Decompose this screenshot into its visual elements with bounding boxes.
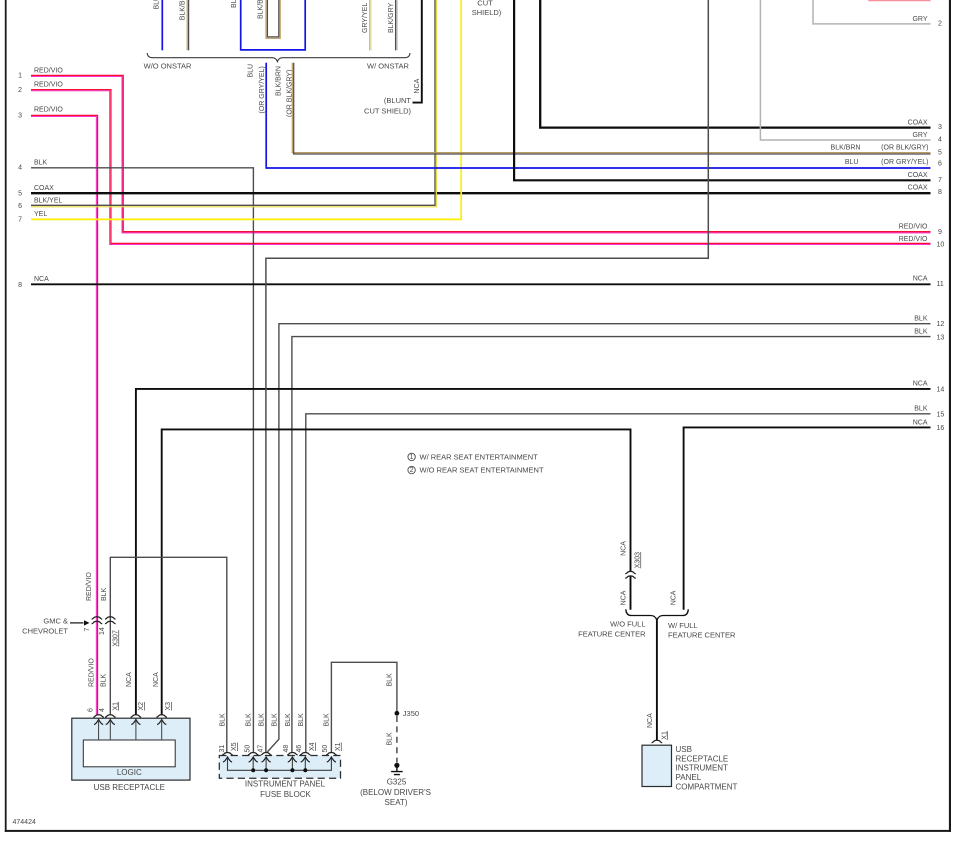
wire left pin6 BLK/YEL black part, up at x435: [31, 0, 435, 205]
svg-text:14: 14: [99, 627, 106, 635]
svg-text:GRY/YEL: GRY/YEL: [362, 3, 369, 33]
svg-text:15: 15: [937, 411, 945, 418]
svg-text:2: 2: [938, 20, 942, 27]
svg-text:BLK/GRY: BLK/GRY: [388, 2, 395, 33]
wire left pin2 RED/VIO violet stripe: [31, 91, 931, 245]
svg-text:X303: X303: [634, 552, 641, 568]
usb pin 4 dome and arrow: [105, 715, 116, 740]
svg-text:COAX: COAX: [908, 119, 928, 126]
wire right pin13 BLK down at x292 to fuse pin 48: [292, 337, 931, 753]
svg-text:FUSE BLOCK: FUSE BLOCK: [260, 790, 311, 799]
svg-text:8: 8: [18, 282, 22, 289]
svg-text:INSTRUMENT PANEL: INSTRUMENT PANEL: [245, 780, 326, 789]
svg-text:31: 31: [219, 745, 226, 753]
svg-text:SEAT): SEAT): [385, 798, 408, 807]
bus junction dot 4: [303, 768, 307, 772]
svg-text:NCA: NCA: [913, 275, 928, 282]
svg-text:RED/VIO: RED/VIO: [34, 67, 63, 74]
svg-text:NCA: NCA: [671, 590, 678, 605]
wire w/ onstar BLK/BRN U-loop black part: [267, 0, 278, 37]
svg-text:7: 7: [84, 628, 91, 632]
svg-text:BLU: BLU: [845, 159, 859, 166]
svg-text:CHEVROLET: CHEVROLET: [22, 627, 68, 636]
svg-text:BLK: BLK: [245, 713, 252, 727]
svg-text:LOGIC: LOGIC: [117, 768, 142, 777]
svg-text:RED/VIO: RED/VIO: [34, 107, 63, 114]
svg-text:CUT: CUT: [477, 0, 493, 8]
wire left pin7 YEL up at x461: [31, 0, 461, 219]
wire left pin2 RED/VIO red to right pin 10: [31, 90, 931, 244]
svg-text:BLK/BRN: BLK/BRN: [276, 66, 283, 96]
svg-text:47: 47: [257, 745, 264, 753]
svg-text:11: 11: [937, 281, 944, 288]
wire right pin12 BLK down at x279 to fuse pin 47: [267, 324, 930, 752]
wire BLK fuse pin 50/X1 to J350: [331, 662, 397, 752]
wire right pin15 BLK down at x306 to fuse pin 46: [306, 414, 931, 753]
footnote 1 circle: [408, 453, 415, 461]
bus junction dot 2: [264, 768, 268, 772]
svg-text:PANEL: PANEL: [676, 773, 702, 782]
wire left pin3 RED/VIO red down to USB receptacle pin 6: [31, 115, 98, 715]
svg-text:RED/VIO: RED/VIO: [86, 572, 93, 601]
wire BLK dashed J350 to G325: [396, 716, 398, 763]
svg-text:W/ REAR SEAT ENTERTAINMENT: W/ REAR SEAT ENTERTAINMENT: [420, 453, 539, 462]
usb receptacle instrument panel compartment box: [642, 745, 672, 786]
svg-text:NCA: NCA: [647, 713, 654, 728]
wire BLK vertical x708 from top to fuse pin 47: [266, 0, 708, 753]
svg-text:5: 5: [938, 150, 942, 157]
svg-text:NCA: NCA: [621, 590, 628, 605]
svg-text:48: 48: [283, 745, 290, 753]
svg-text:NCA: NCA: [621, 541, 628, 556]
svg-text:GRY: GRY: [912, 132, 927, 139]
svg-text:BLU: BLU: [231, 0, 238, 8]
svg-text:9: 9: [938, 229, 942, 236]
connector X303: [625, 571, 636, 578]
svg-text:5: 5: [18, 190, 22, 197]
svg-text:BLK/YEL: BLK/YEL: [34, 198, 63, 205]
wire BLK/GRY stub black part: [395, 0, 397, 50]
svg-text:X307: X307: [112, 630, 119, 646]
svg-text:BLK: BLK: [387, 732, 394, 746]
wire right pin2 GRY up at x813: [813, 0, 931, 24]
svg-text:J350: J350: [403, 709, 419, 718]
wire left pin5 COAX to right pin 8: [31, 192, 931, 194]
wire w/o onstar BLK/BRN stub tan part: [186, 0, 188, 50]
wire left pin6 BLK/YEL yellow stripe: [31, 0, 436, 207]
svg-text:474424: 474424: [13, 819, 36, 826]
wire w/o onstar BLU stub: [161, 0, 163, 50]
svg-text:4: 4: [938, 136, 942, 143]
svg-text:10: 10: [937, 242, 945, 249]
svg-text:SHIELD): SHIELD): [472, 8, 502, 17]
svg-text:50: 50: [244, 745, 251, 753]
footnote 2 circle: [408, 466, 415, 474]
wire BLK/BRN from brace to right pin 5 black part: [294, 63, 931, 154]
svg-text:BLU: BLU: [247, 64, 254, 78]
svg-text:BLU: BLU: [154, 0, 161, 10]
svg-text:BLK/BRN: BLK/BRN: [258, 0, 265, 19]
svg-text:BLK: BLK: [220, 713, 227, 727]
fuse pin 50/X1 dome and arrow: [326, 753, 337, 763]
svg-text:W/O FULL: W/O FULL: [610, 620, 645, 629]
svg-text:BLK: BLK: [101, 587, 108, 601]
svg-text:X1: X1: [335, 742, 342, 751]
brace onstar options: [147, 53, 410, 62]
usb pin X2 dome and arrow: [131, 715, 142, 740]
svg-text:(OR GRY/YEL): (OR GRY/YEL): [881, 159, 928, 166]
svg-text:X5: X5: [231, 742, 238, 751]
svg-text:(OR GRY/YEL): (OR GRY/YEL): [259, 66, 266, 113]
svg-text:COAX: COAX: [34, 185, 54, 192]
svg-text:BLK: BLK: [914, 316, 928, 323]
arrow GMC pointer: [70, 620, 90, 625]
svg-text:8: 8: [938, 189, 942, 196]
svg-text:CUT SHIELD): CUT SHIELD): [364, 106, 411, 115]
svg-text:YEL: YEL: [34, 211, 47, 218]
svg-text:X1: X1: [112, 702, 119, 711]
svg-text:X3: X3: [165, 702, 172, 711]
svg-text:COMPARTMENT: COMPARTMENT: [676, 783, 738, 792]
border left: [5, 0, 7, 832]
svg-text:3: 3: [938, 124, 942, 131]
fuse pin 46 dome and arrow: [300, 753, 311, 763]
svg-text:W/ ONSTAR: W/ ONSTAR: [367, 61, 410, 70]
wire w/ onstar BLK/BRN U-loop tan part: [266, 0, 280, 38]
svg-text:COAX: COAX: [908, 185, 928, 192]
wire GRY/YEL stub yellow part: [370, 0, 372, 50]
svg-text:12: 12: [937, 321, 945, 328]
wire w/o onstar BLK/BRN stub black part: [188, 0, 190, 50]
svg-text:BLK: BLK: [101, 673, 108, 687]
junction J350: [395, 711, 400, 716]
bus junction dot 3: [290, 768, 294, 772]
wire BLK bridge USB pin4 to fuse pin 31: [110, 557, 227, 752]
svg-text:14: 14: [937, 386, 945, 393]
fuse block dashed box: [219, 756, 340, 779]
svg-text:W/ FULL: W/ FULL: [668, 621, 698, 630]
svg-text:X4: X4: [309, 742, 316, 751]
svg-text:W/O ONSTAR: W/O ONSTAR: [144, 61, 192, 70]
ground G325: [391, 763, 403, 775]
svg-text:BLK: BLK: [387, 673, 394, 687]
svg-text:NCA: NCA: [414, 78, 421, 93]
wire left pin1 RED/VIO violet stripe: [31, 77, 931, 233]
svg-text:NCA: NCA: [913, 381, 928, 388]
fuse pin 47 dome and arrow: [261, 753, 272, 763]
usb receptacle logic box: [83, 740, 175, 767]
wire left pin4 BLK down to fuse block pin 50: [31, 168, 253, 753]
svg-text:6: 6: [18, 203, 22, 210]
svg-text:BLK: BLK: [285, 713, 292, 727]
fuse pin 50 dome and arrow: [248, 753, 259, 763]
svg-text:X1: X1: [661, 731, 668, 740]
svg-text:BLK: BLK: [914, 329, 928, 336]
svg-text:NCA: NCA: [34, 276, 49, 283]
svg-text:NCA: NCA: [913, 419, 928, 426]
svg-text:BLK/BRN: BLK/BRN: [831, 145, 861, 152]
wire NCA w/o full feature center: from USB pin X3 up across to x630 down to brace: [162, 429, 631, 715]
bus junction dot 1: [251, 768, 255, 772]
svg-text:BLK: BLK: [298, 713, 305, 727]
svg-text:RED/VIO: RED/VIO: [34, 81, 63, 88]
svg-text:GMC &: GMC &: [43, 616, 68, 625]
wire left pin8 NCA to right pin 11: [31, 283, 931, 285]
svg-text:7: 7: [938, 177, 942, 184]
svg-text:6: 6: [938, 161, 942, 168]
svg-text:BLK: BLK: [914, 406, 928, 413]
svg-text:7: 7: [18, 216, 22, 223]
wire NCA blunt cut shield: [413, 0, 422, 103]
wire right pin1 RED/VIO stub red: [868, 0, 930, 2]
svg-text:INSTRUMENT: INSTRUMENT: [676, 764, 729, 773]
svg-text:USB: USB: [676, 745, 692, 754]
svg-text:COAX: COAX: [908, 172, 928, 179]
connector X307 on BLK wire: [105, 617, 116, 624]
wire NCA merged output down to bottom USB receptacle: [656, 620, 658, 740]
usb receptacle box: [72, 718, 190, 780]
svg-text:FEATURE CENTER: FEATURE CENTER: [578, 629, 646, 638]
wire left pin3 RED/VIO violet stripe: [31, 117, 96, 715]
svg-text:GRY: GRY: [912, 16, 927, 23]
svg-text:FEATURE CENTER: FEATURE CENTER: [668, 631, 736, 640]
connector X307 on RED/VIO wire: [92, 617, 103, 624]
svg-text:RECEPTACLE: RECEPTACLE: [676, 754, 729, 763]
svg-text:BLK: BLK: [34, 160, 48, 167]
svg-text:W/O REAR SEAT ENTERTAINMENT: W/O REAR SEAT ENTERTAINMENT: [420, 466, 544, 475]
svg-text:(BLUNT: (BLUNT: [384, 96, 412, 105]
svg-text:6: 6: [87, 708, 94, 712]
usb pin 6 dome and arrow: [93, 715, 104, 740]
svg-text:NCA: NCA: [153, 672, 160, 687]
svg-text:NCA: NCA: [126, 672, 133, 687]
svg-text:(OR BLK/GRY): (OR BLK/GRY): [881, 145, 928, 152]
svg-text:13: 13: [937, 334, 945, 341]
wire right pin4 GRY up at x760: [760, 0, 930, 140]
connector X1 at bottom usb box: [652, 740, 663, 742]
fuse block ground bus: [228, 757, 332, 770]
border bottom: [5, 830, 951, 832]
svg-text:USB RECEPTACLE: USB RECEPTACLE: [94, 783, 165, 792]
usb pin X3 dome and arrow: [156, 715, 167, 740]
svg-text:2: 2: [18, 87, 22, 94]
fuse pin 48 dome and arrow: [287, 753, 298, 763]
svg-text:1: 1: [18, 73, 22, 80]
svg-text:RED/VIO: RED/VIO: [89, 658, 96, 687]
svg-text:BLK: BLK: [324, 713, 331, 727]
wire COAX shield vertical x514 to right pin 7: [514, 0, 930, 180]
wire BLU from brace to right pin 6: [266, 63, 930, 168]
svg-text:1: 1: [410, 454, 414, 461]
svg-text:4: 4: [18, 165, 22, 172]
svg-text:RED/VIO: RED/VIO: [899, 236, 928, 243]
svg-text:BLK: BLK: [258, 713, 265, 727]
svg-text:BLK: BLK: [271, 713, 278, 727]
wire BLK/GRY stub gray part: [396, 0, 398, 50]
svg-text:16: 16: [937, 425, 945, 432]
wire w/ onstar BLU U-loop: [241, 0, 306, 50]
svg-text:50: 50: [322, 745, 329, 753]
fuse pin 31 dome and arrow: [222, 753, 233, 763]
svg-text:4: 4: [99, 708, 106, 712]
svg-text:46: 46: [296, 745, 303, 753]
svg-text:BLK/BRN: BLK/BRN: [179, 0, 186, 20]
svg-text:X2: X2: [138, 702, 145, 711]
brace full feature center options: [626, 609, 689, 620]
svg-text:G325: G325: [387, 778, 407, 787]
svg-text:RED/VIO: RED/VIO: [899, 224, 928, 231]
svg-text:3: 3: [18, 113, 22, 120]
wire COAX vertical x540 to right pin 3: [540, 0, 930, 128]
svg-text:2: 2: [410, 467, 414, 474]
wire left pin1 RED/VIO red to right pin 9: [31, 75, 931, 231]
svg-text:(BELOW DRIVER'S: (BELOW DRIVER'S: [360, 788, 431, 797]
wire GRY/YEL stub gray part: [369, 0, 371, 50]
wire right pin16 NCA down at x684 to brace w/ full feature center: [684, 427, 931, 609]
border right: [949, 0, 951, 832]
wire BLK/BRN from brace to right pin 5 tan part: [292, 63, 930, 153]
wire right pin14 NCA down at x136 to USB pin X2: [136, 389, 931, 715]
